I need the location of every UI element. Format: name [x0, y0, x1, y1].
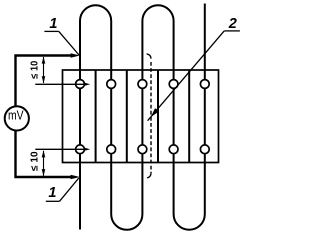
- millivoltmeter U1 circle: [5, 106, 29, 130]
- hole circle bottom row on L1: [76, 145, 85, 154]
- svg-text:≤ 10: ≤ 10: [30, 151, 41, 171]
- svg-text:mV: mV: [8, 108, 24, 123]
- label 1 top leader line: [59, 31, 79, 55]
- label 1 bottom underline: [46, 200, 60, 202]
- dashed joint line (net 2): [147, 54, 151, 59]
- hole circle top row on L7: [169, 80, 178, 89]
- label 2 leader arrowhead at dashed line: [151, 108, 159, 117]
- small arrowhead of lower hole line: [85, 148, 91, 151]
- top U-bend loop L5-L7: [142, 5, 173, 70]
- wire from meter top to tube (upper lead): [16, 56, 72, 107]
- small arrowhead of upper hole line: [85, 83, 91, 86]
- bottom U-bend loop L3-L5: [111, 163, 142, 230]
- arrowhead of upper lead at tube L1: [71, 53, 80, 57]
- label 2 leader line: [148, 31, 225, 121]
- upper dimension arrow up: [42, 57, 46, 64]
- arrowhead of lower lead at tube L1: [71, 175, 80, 179]
- svg-text:2: 2: [228, 16, 237, 32]
- upper hole reference line through hole L1: [35, 83, 86, 85]
- upper dimension arrow down: [42, 76, 46, 83]
- tube line L2 (inside plate only): [95, 70, 97, 163]
- tube line L5 (inside plate): [141, 70, 143, 163]
- lower hole reference line through hole L1: [35, 148, 86, 150]
- lower dimension arrow down: [42, 169, 46, 176]
- bottom U-bend loop L7-L9: [174, 163, 205, 230]
- top U-bend loop L1-L3: [80, 5, 111, 70]
- label 2 underline: [224, 30, 240, 32]
- hole circle bottom row on L3: [107, 145, 116, 154]
- tube segment T9 (line L9, through plate, free end at top): [204, 4, 206, 71]
- wire from meter bottom to tube (lower lead): [16, 130, 72, 177]
- tube line L6 (inside plate only): [157, 70, 159, 163]
- label 1 top underline: [44, 30, 58, 32]
- tube line L3 (inside plate): [110, 70, 112, 163]
- hole circle top row on L3: [107, 80, 116, 89]
- upper dimension line: [43, 57, 45, 83]
- svg-text:≤ 10: ≤ 10: [30, 60, 41, 78]
- svg-text:1: 1: [48, 185, 56, 201]
- hole circle bottom row on L7: [169, 145, 178, 154]
- hole circle bottom row on L5: [138, 145, 147, 154]
- lower dimension line: [43, 151, 45, 176]
- hole circle top row on L5: [138, 80, 147, 89]
- tube segment T1 (line L1, through plate, free end at bottom): [79, 70, 81, 230]
- label 1 bottom leader line: [60, 178, 79, 201]
- hole circle bottom row on L9: [200, 145, 209, 154]
- lower dimension arrow up: [42, 150, 46, 157]
- tube line L4 (inside plate only): [126, 70, 128, 163]
- plate P (specimen plate rectangle): [63, 70, 219, 163]
- hole circle top row on L9: [200, 80, 209, 89]
- tube line L7 (inside plate): [173, 70, 175, 163]
- tube line L8 (inside plate only): [188, 70, 190, 163]
- hole circle top row on L1: [76, 80, 85, 89]
- svg-text:1: 1: [49, 16, 57, 32]
